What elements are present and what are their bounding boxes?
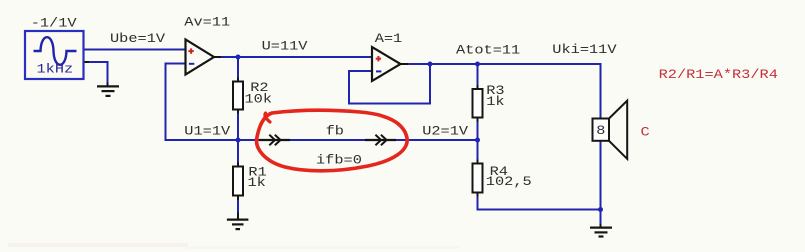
voltage source V1 box [25,31,84,79]
svg-text:102,5: 102,5 [486,175,532,190]
svg-text:R2/R1=A*R3/R4: R2/R1=A*R3/R4 [659,68,778,83]
current arrow 1 on fb wire [259,135,290,145]
svg-text:Ube=1V: Ube=1V [110,32,166,47]
resistor R3 [473,89,483,118]
resistor R1 [233,167,243,196]
wire R4 bottom to bottom rail [477,192,479,211]
wire source ground stem [107,83,109,86]
op-amp U1 + pin [188,48,193,53]
wire op-amp U2 feedback loop output to inverting input [349,64,430,104]
svg-text:fb: fb [326,125,344,140]
junction node U1 [236,138,241,143]
wire U1 node down to R1 top [237,140,239,167]
svg-text:Av=11: Av=11 [184,16,230,31]
svg-text:A=1: A=1 [375,32,403,47]
resistor R2 [233,82,243,110]
wire node U down to R2 top [237,57,239,82]
wire source bottom pin stub [84,61,91,63]
svg-text:8: 8 [596,124,605,139]
wire R3 bottom to U2 node [477,117,479,140]
svg-text:U=11V: U=11V [262,39,308,54]
svg-text:U2=1V: U2=1V [422,125,468,140]
svg-text:1k: 1k [248,176,266,191]
svg-text:ifb=0: ifb=0 [316,154,362,169]
wire source bottom to ground corner [89,62,108,83]
speaker LS1 box [593,119,610,141]
op-amp U2 [372,47,401,81]
wire Atot node down to R3 top [477,64,479,90]
wire speaker bottom to ground node [600,140,602,210]
junction node op-amp U2 output [428,62,433,67]
wire R2 bottom to U1 node [237,109,239,140]
wire bottom rail R4 to ground node [477,209,601,211]
svg-text:1kHz: 1kHz [37,62,74,77]
svg-text:Atot=11: Atot=11 [456,43,520,58]
op-amp U2 - pin [376,70,381,72]
wire fb net from U1 node to U2 node [238,139,478,141]
svg-text:Uki=11V: Uki=11V [552,43,617,58]
svg-text:1k: 1k [486,95,504,110]
junction node U (op-amp U1 output / R2) [236,55,241,60]
speaker cone [609,101,627,159]
red marker ellipse around fb [257,110,408,171]
pin stub op-amp U2 output [400,63,408,65]
wire Ube from source to op-amp U1 + input [84,49,187,51]
wire ground stem GND3 [600,210,602,225]
wire R1 to ground GND2 [237,200,239,213]
ground GND3 (bottom right) [590,228,612,237]
svg-text:10k: 10k [245,92,273,107]
wire op-amp U2 output to speaker (net Atot / Uki) [400,64,601,119]
wire op-amp U1 inverting input to U1 node [166,64,239,141]
resistor R4 [473,164,483,193]
op-amp U2 + pin [376,56,381,61]
junction node U2 [475,138,480,143]
pin stubs resistor R2 [237,78,239,83]
red marker stroke start hook [265,113,270,122]
pin stubs resistor R3 [477,85,479,90]
wire R1 bottom pin stub [237,196,239,201]
junction node ground rail [598,207,603,212]
voltage source sine symbol [34,37,77,65]
pin stubs resistor R4 [477,160,479,165]
pin stubs resistor R1 [237,163,239,168]
svg-text:C: C [641,125,650,140]
pin stub op-amp U1 output [213,56,221,58]
junction node Atot [475,62,480,67]
ground GND2 (below R1) [227,220,249,230]
op-amp U1 [186,40,215,75]
svg-text:-1/1V: -1/1V [31,16,77,31]
faint smudge bottom left [8,243,188,247]
wire op-amp U1 output to op-amp U2 + input (net U=11V) [213,56,373,58]
op-amp U1 - pin [189,63,194,65]
wire U2 node down to R4 top [477,140,479,164]
ground GND1 (source) [97,86,119,96]
svg-text:U1=1V: U1=1V [184,125,230,140]
current arrow 2 on fb wire [365,135,396,145]
